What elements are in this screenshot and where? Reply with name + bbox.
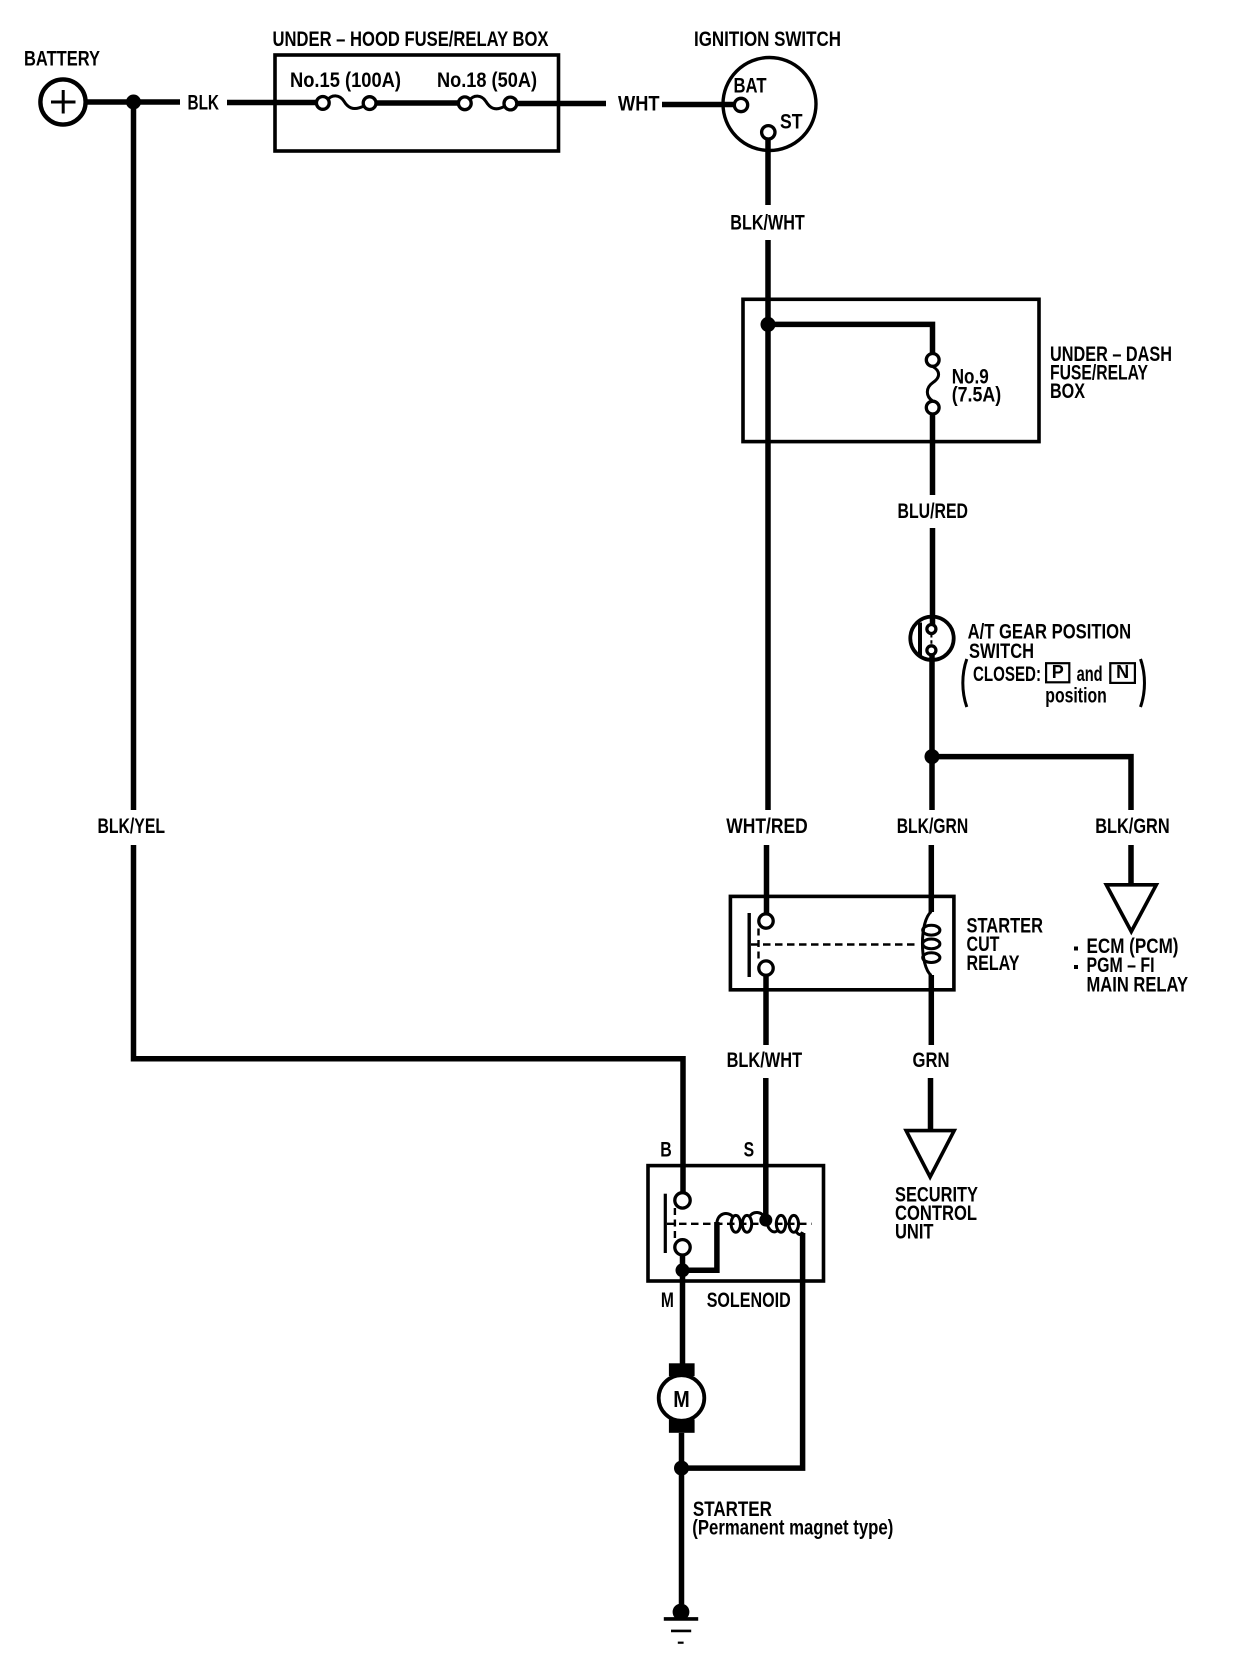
wire fuse box to ignition switch (WHT) — [517, 93, 735, 116]
wire solenoid M to starter motor — [680, 1274, 686, 1364]
wire battery branch (BLK/YEL) — [98, 102, 684, 1193]
relay contact armature — [749, 913, 917, 977]
wire between fuses — [376, 100, 458, 106]
junction node below A/T switch — [925, 749, 940, 764]
starter cut relay box — [730, 896, 1043, 989]
svg-text:SWITCH: SWITCH — [969, 640, 1034, 663]
svg-text:M: M — [673, 1386, 690, 1412]
svg-text:BLK/GRN: BLK/GRN — [897, 815, 969, 838]
wire ECM branch down (BLK/GRN) — [1095, 815, 1170, 884]
svg-text:and: and — [1077, 663, 1103, 686]
junction node at battery feed — [126, 95, 141, 110]
svg-text:UNIT: UNIT — [895, 1221, 934, 1244]
svg-text:No.15 (100A): No.15 (100A) — [290, 69, 401, 92]
wire to ground — [679, 1468, 685, 1604]
svg-text:(7.5A): (7.5A) — [952, 384, 1002, 407]
wire relay coil down (GRN) — [913, 975, 950, 1130]
svg-text:BOX: BOX — [1050, 380, 1085, 403]
starter label — [692, 1498, 893, 1540]
svg-text:position: position — [1045, 685, 1107, 708]
wire hold-in coil return to motor node — [688, 1233, 803, 1468]
svg-text:IGNITION SWITCH: IGNITION SWITCH — [694, 28, 841, 51]
wire A/T switch to junction — [929, 655, 935, 757]
solenoid box — [648, 1166, 824, 1312]
solenoid contact armature — [665, 1193, 811, 1255]
junction node at S coil tap — [759, 1214, 772, 1227]
under-hood fuse/relay box — [273, 28, 559, 151]
svg-text:BLU/RED: BLU/RED — [898, 500, 969, 523]
wire fuse No.9 down (BLU/RED) — [898, 414, 969, 625]
svg-text:B: B — [660, 1138, 672, 1161]
solenoid hold-in coil — [767, 1215, 803, 1234]
svg-text:SOLENOID: SOLENOID — [707, 1289, 791, 1312]
svg-text:BATTERY: BATTERY — [24, 48, 100, 71]
solenoid pull-in coil — [717, 1212, 765, 1232]
ECM arrow (to ECM/PCM, PGM-FI main relay) — [1074, 885, 1188, 997]
relay coil — [922, 912, 939, 976]
A/T gear position switch — [910, 617, 1131, 663]
svg-text:BLK/YEL: BLK/YEL — [98, 815, 166, 838]
ignition switch — [694, 28, 841, 151]
svg-text:BLK: BLK — [188, 92, 220, 115]
wire battery to under-hood box (BLK) — [87, 92, 317, 115]
terminal ST — [762, 126, 775, 139]
wire motor to ground node — [679, 1433, 685, 1468]
svg-text:WHT: WHT — [618, 93, 660, 116]
wire contact bottom to coil — [683, 1222, 717, 1270]
ground — [664, 1604, 698, 1643]
under-dash fuse/relay box — [743, 299, 1172, 441]
svg-text:BLK/WHT: BLK/WHT — [730, 212, 805, 235]
svg-text:ST: ST — [780, 111, 803, 134]
wire junction to ECM branch — [932, 757, 1131, 810]
svg-text:(Permanent magnet type): (Permanent magnet type) — [692, 1517, 893, 1540]
junction node in under-dash box — [761, 317, 776, 332]
svg-text:RELAY: RELAY — [967, 952, 1020, 975]
svg-text:BLK/WHT: BLK/WHT — [727, 1049, 803, 1072]
battery — [24, 48, 100, 125]
svg-text:S: S — [744, 1138, 755, 1161]
wire ST down (BLK/WHT) — [730, 139, 805, 810]
svg-text:BLK/GRN: BLK/GRN — [1095, 815, 1170, 838]
svg-text:WHT/RED: WHT/RED — [726, 815, 808, 838]
starter motor — [659, 1363, 705, 1433]
terminal BAT — [734, 98, 747, 111]
svg-text:GRN: GRN — [913, 1049, 950, 1072]
svg-text:MAIN RELAY: MAIN RELAY — [1087, 973, 1189, 996]
fuse No.15 (100A) — [290, 69, 401, 110]
svg-text:M: M — [661, 1289, 674, 1312]
wire junction to fuse No.9 — [768, 324, 933, 353]
svg-text:P: P — [1052, 662, 1064, 682]
svg-text:No.18 (50A): No.18 (50A) — [437, 69, 537, 92]
security control unit arrow — [895, 1131, 978, 1244]
fuse No.9 (7.5A) — [926, 354, 1001, 415]
svg-text:CLOSED:: CLOSED: — [973, 663, 1041, 686]
wire relay contact to solenoid S (BLK/WHT) — [727, 975, 803, 1216]
fuse No.18 (50A) — [437, 69, 537, 110]
junction node at solenoid M — [676, 1263, 690, 1277]
junction node below motor — [674, 1461, 689, 1476]
svg-text:BAT: BAT — [734, 75, 767, 98]
wire to relay contact (WHT/RED) — [726, 815, 808, 914]
svg-text:N: N — [1116, 662, 1129, 682]
wire junction down to relay coil (BLK/GRN) — [897, 757, 969, 912]
svg-text:UNDER – HOOD FUSE/RELAY BOX: UNDER – HOOD FUSE/RELAY BOX — [273, 28, 549, 51]
closed position note — [963, 659, 1145, 708]
